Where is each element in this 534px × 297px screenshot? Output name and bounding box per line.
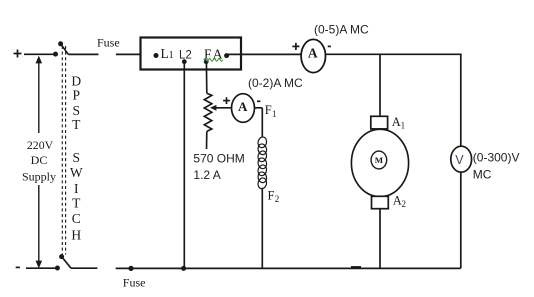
thick mark on bottom wire	[351, 266, 361, 268]
svg-text:S: S	[73, 150, 81, 165]
svg-text:(0-2)A MC: (0-2)A MC	[248, 76, 303, 90]
svg-text:DC: DC	[31, 153, 48, 167]
ammeter A1 (0-5)A MC	[292, 39, 331, 72]
wire ammeter A1 to right corner	[326, 53, 462, 55]
svg-text:MC: MC	[473, 167, 492, 181]
220V DC supply annotation arrow	[21, 56, 57, 269]
wire motor branch top	[379, 54, 381, 116]
rheostat wiper arrow	[210, 105, 232, 111]
svg-text:A: A	[392, 115, 401, 129]
wire from terminal F down to rheostat	[205, 62, 207, 94]
svg-text:V: V	[455, 153, 464, 167]
svg-text:M: M	[375, 155, 384, 165]
svg-text:F: F	[265, 103, 272, 117]
wire right vertical upper	[460, 54, 462, 146]
svg-text:H: H	[71, 227, 81, 242]
wire from terminal A to ammeter A1	[227, 53, 302, 55]
terminal L1	[154, 46, 174, 61]
node - terminal	[16, 266, 20, 268]
svg-text:I: I	[74, 181, 79, 196]
svg-text:2: 2	[402, 199, 407, 209]
wire motor branch bottom	[379, 209, 381, 269]
svg-text:W: W	[70, 165, 83, 180]
DPST switch bottom pole blade	[55, 254, 71, 270]
label (0-300)V MC	[473, 150, 520, 181]
svg-text:A: A	[308, 46, 318, 61]
junction dot L2 on bottom wire	[181, 266, 186, 271]
terminal F2 label	[268, 188, 280, 204]
wire right vertical lower	[460, 172, 462, 268]
spellcheck squiggle under F A	[204, 59, 223, 61]
svg-text:220V: 220V	[27, 138, 54, 152]
svg-text:F: F	[268, 188, 275, 202]
svg-text:D: D	[71, 73, 81, 88]
svg-text:570 OHM: 570 OHM	[193, 151, 244, 165]
field winding coil	[257, 136, 268, 190]
terminal A1 of motor	[371, 115, 405, 131]
node + terminal	[14, 50, 22, 58]
svg-text:A: A	[393, 193, 402, 207]
svg-text:S: S	[73, 103, 81, 118]
svg-text:L: L	[161, 46, 169, 61]
svg-text:1: 1	[401, 120, 406, 130]
wire L2 down to bottom	[183, 62, 185, 269]
wire switch to top fuse	[68, 53, 98, 55]
label S W I T C H	[70, 150, 83, 242]
label 570 OHM 1.2 A	[193, 151, 244, 182]
terminal F	[204, 46, 212, 64]
label D P S T	[71, 73, 81, 132]
svg-text:P: P	[73, 88, 81, 103]
ammeter A2 (0-2)A MC	[223, 94, 260, 123]
svg-text:1.2 A: 1.2 A	[193, 168, 220, 182]
svg-text:2: 2	[275, 194, 280, 204]
DPST switch linkage (dashed)	[62, 46, 65, 255]
fuse bottom (gap) and right terminal dot	[116, 266, 461, 271]
svg-text:(0-300)V: (0-300)V	[473, 150, 520, 164]
svg-text:1: 1	[272, 109, 277, 119]
DPST switch top pole blade	[58, 41, 68, 54]
wire field branch bottom	[261, 188, 263, 268]
rheostat 570 OHM	[204, 93, 212, 149]
svg-text:A: A	[238, 99, 248, 114]
terminal F1 label	[265, 103, 277, 119]
svg-text:C: C	[72, 211, 81, 226]
label 220V DC Supply	[22, 138, 56, 183]
wire top-left from + to switch	[24, 52, 58, 57]
svg-text:Fuse: Fuse	[123, 275, 146, 289]
svg-text:(0-5)A MC: (0-5)A MC	[314, 22, 369, 36]
wire ammeter A2 to field branch	[255, 108, 263, 138]
svg-text:T: T	[72, 117, 81, 132]
terminal A2 of motor	[372, 193, 407, 209]
fuse top (gap)	[116, 53, 141, 55]
starter box	[141, 38, 242, 70]
svg-text:T: T	[72, 196, 81, 211]
svg-text:1: 1	[169, 50, 174, 61]
terminal A	[213, 46, 229, 61]
voltmeter V	[451, 146, 472, 172]
motor M	[351, 129, 408, 196]
svg-text:Supply: Supply	[22, 169, 56, 183]
terminal L2	[179, 50, 192, 65]
svg-text:Fuse: Fuse	[97, 35, 120, 49]
bottom wire left of fuse	[26, 267, 97, 269]
